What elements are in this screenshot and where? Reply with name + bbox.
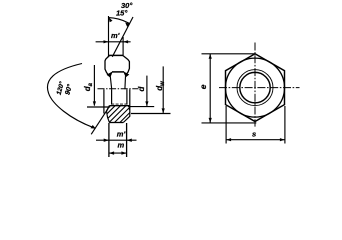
svg-text:15°: 15° — [116, 9, 128, 18]
svg-text:m': m' — [117, 129, 126, 138]
svg-text:e: e — [198, 84, 208, 89]
thread major diameter hidden line — [111, 103, 128, 105]
dimension s: right extension line — [284, 106, 286, 144]
right countersink wall (below axis) — [126, 89, 128, 104]
nut bottom face (section bottom) — [109, 122, 123, 124]
dimension m' bottom: right arrow — [127, 139, 132, 142]
thread major circle (thin) — [237, 70, 273, 106]
nut top face — [109, 54, 123, 56]
dimension d: extension line — [128, 106, 154, 108]
chamfer arc shoulder line (upper corner band bottom) — [112, 71, 124, 73]
dimension m: dim line — [109, 152, 127, 154]
dimension s: left extension line — [225, 106, 227, 144]
dimension s: left arrow (inside, pointing out) — [226, 138, 231, 141]
svg-text:d: d — [137, 86, 146, 92]
dimension e: top extension line — [202, 53, 256, 55]
angle leader arc for 120/90 — [47, 64, 94, 129]
dimension e: dim line — [209, 54, 211, 123]
right shoulder wedge — [123, 71, 129, 77]
svg-text:da: da — [83, 82, 94, 91]
nut top left chamfer side (curved) — [105, 56, 109, 75]
chamfer angle arc — [109, 18, 130, 24]
dimension m' bottom: dim line — [96, 139, 137, 141]
thread hole wall — [109, 105, 129, 107]
dimension s: right arrow (inside, pointing out) — [280, 138, 285, 141]
chamfer arc arrowhead right — [125, 23, 130, 27]
dimension da: arrowhead — [93, 101, 96, 106]
right chamfer cone edge (upper half) — [124, 76, 127, 89]
right countersink cone edge — [128, 106, 130, 110]
chamfer angle slant line — [112, 17, 133, 57]
horizontal centerline — [219, 87, 300, 89]
hexagon outline — [226, 54, 285, 122]
dimension d: arrowhead — [145, 101, 148, 106]
hatch left boundary — [107, 106, 110, 123]
dimension da: dim line — [93, 65, 95, 106]
dimension e: top arrow — [209, 54, 212, 59]
dimension e: bottom arrow — [209, 118, 212, 123]
chamfer angle reference vertical line — [108, 16, 110, 57]
vertical centerline — [254, 43, 256, 127]
dimension m' top: right arrow — [123, 40, 128, 43]
left countersink wall (below axis) — [111, 89, 113, 104]
nut left outer face (lower) — [103, 89, 105, 113]
dimension m' top: left arrow — [104, 40, 109, 43]
left chamfer cone edge (upper half) — [110, 76, 111, 89]
dimension dw: extension line — [131, 113, 171, 115]
dimension m' top: dim line — [96, 41, 131, 43]
dimension m: left arrow (inside, pointing out) — [109, 151, 114, 154]
angle leader arc arrowhead — [91, 125, 96, 129]
nut right outer face (lower) — [129, 89, 131, 116]
svg-text:s: s — [252, 130, 256, 139]
left countersink cone edge — [107, 106, 110, 111]
thread hole circle — [240, 72, 270, 102]
dimension dw: arrowhead — [162, 108, 165, 113]
dimension m' top: right extension line — [122, 37, 124, 55]
left shoulder wedge — [107, 71, 113, 77]
nut top right chamfer side (curved) — [123, 56, 129, 75]
dimension m' bottom: right extension line — [126, 123, 128, 157]
120deg countersink leader line — [91, 108, 108, 134]
dimension dw: dim line — [162, 66, 164, 113]
dimension m' bottom: left extension line — [108, 123, 110, 157]
svg-text:m: m — [118, 141, 125, 150]
dimension e: bottom extension line — [202, 122, 257, 124]
dimension d: dim line — [146, 76, 148, 106]
dimension da: extension line — [87, 106, 110, 108]
horizontal centerline of side view — [98, 88, 139, 90]
nut bottom right chamfer slope — [123, 116, 130, 122]
chamfer arc arrowhead left — [109, 17, 113, 22]
dimension s: dim line — [226, 139, 285, 141]
svg-text:m': m' — [111, 31, 120, 40]
chamfer circle (inscribed) — [226, 58, 285, 117]
dimension m: right arrow (inside, pointing out) — [121, 151, 126, 154]
dimension m' bottom: left arrow — [104, 139, 109, 142]
